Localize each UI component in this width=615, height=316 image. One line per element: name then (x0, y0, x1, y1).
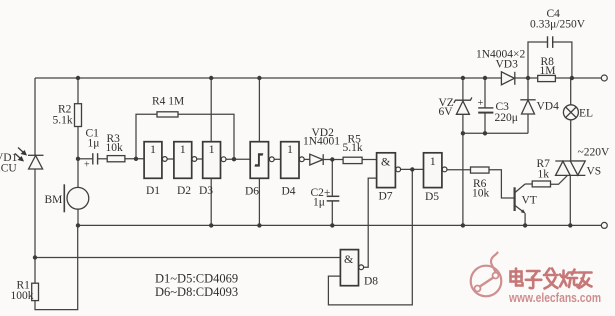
wire VD2 to R5 with node (323, 159, 343, 161)
wire R1 bottom loop (35, 225, 78, 309)
wire triac to bottom rail (569, 175, 571, 225)
wire VT emitter down (524, 213, 526, 225)
svg-text:1N4001: 1N4001 (303, 135, 340, 147)
svg-text:6V: 6V (439, 106, 454, 118)
wire C4 branch (528, 42, 547, 78)
svg-text:5.1k: 5.1k (343, 142, 363, 154)
svg-text:1: 1 (209, 142, 215, 156)
diode VD4 (520, 100, 535, 114)
wire D6 supply bottom (258, 178, 260, 225)
light arrows (15, 148, 26, 161)
microphone BM (64, 184, 89, 212)
nand gate D7 (377, 153, 401, 188)
svg-text:D8: D8 (364, 276, 378, 288)
resistor R3 (107, 156, 125, 162)
wire R4 feedback loop (136, 114, 157, 159)
nand gate D8 (340, 250, 363, 286)
svg-text:BM: BM (45, 194, 63, 206)
zener diode VZ (454, 97, 472, 114)
svg-text:10k: 10k (472, 188, 490, 200)
wire C1 to R3 (98, 158, 107, 160)
wire D3 out to D6 (226, 158, 250, 160)
resistor R2 (75, 104, 82, 127)
resistor R4 (157, 112, 178, 117)
wire EL branch (570, 78, 572, 105)
diode VD2 (310, 154, 323, 165)
svg-text:1M: 1M (540, 65, 556, 77)
lamp EL (563, 105, 578, 120)
svg-text:D3: D3 (199, 185, 213, 197)
svg-text:EL: EL (579, 108, 593, 120)
wire R2 to signal node (77, 127, 79, 159)
wire mid supply line (463, 132, 528, 134)
resistor R7 (532, 181, 550, 187)
svg-text:2CU: 2CU (0, 163, 17, 175)
wire D3 supply top (210, 78, 212, 142)
resistor R5 (343, 157, 362, 163)
svg-text:D1~D5:CD4069: D1~D5:CD4069 (155, 272, 238, 286)
capacitor C4 (548, 36, 553, 48)
svg-text:+: + (84, 160, 90, 171)
svg-text:D7: D7 (379, 191, 393, 203)
svg-text:1: 1 (287, 142, 293, 156)
svg-text:1k: 1k (538, 169, 550, 181)
wire D5 out to R6 (447, 169, 471, 171)
wire VT collector to R7 (525, 183, 532, 185)
svg-text:D2: D2 (177, 185, 191, 197)
wire VZ branch (462, 78, 464, 100)
wire left vertical VD1 branch (34, 78, 36, 155)
svg-text:1: 1 (430, 154, 436, 168)
photodiode VD1 (28, 155, 44, 169)
svg-text:R4 1M: R4 1M (152, 96, 184, 108)
wire D1 out to D2 (167, 158, 174, 160)
triac VS (555, 161, 585, 175)
wire R6 to VT base (489, 170, 514, 198)
wire R7 to triac gate (551, 176, 568, 185)
resistor R8 (538, 75, 556, 81)
diode VD3 (501, 72, 514, 85)
wire R3 to D1 input (125, 158, 144, 160)
svg-text:VD4: VD4 (537, 101, 560, 113)
schmitt gate D6 (250, 142, 274, 179)
resistor R1 (32, 283, 39, 300)
svg-text:&: & (381, 155, 391, 169)
svg-text:D5: D5 (425, 191, 439, 203)
wire D7 out to D5 with node (400, 168, 423, 170)
svg-text:1: 1 (180, 142, 186, 156)
inverter D3 (203, 142, 226, 179)
wire R5 to D7 input1 (362, 159, 377, 161)
svg-text:1: 1 (150, 142, 156, 156)
inverter D5 (424, 153, 448, 188)
capacitor C3 (478, 108, 493, 113)
wire C3 branch (484, 78, 486, 108)
transistor VT (515, 184, 526, 214)
wire bottom rail (78, 224, 602, 226)
wire D6 out to D4 (274, 158, 281, 160)
svg-text:1μ: 1μ (313, 197, 325, 209)
svg-text:0.33μ/250V: 0.33μ/250V (530, 19, 586, 31)
svg-text:D6~D8:CD4093: D6~D8:CD4093 (155, 285, 238, 299)
inverter D2 (174, 142, 197, 179)
wire D2 out to D3 (197, 158, 203, 160)
capacitor C2 (327, 196, 340, 201)
svg-text:www.elecfans.com: www.elecfans.com (508, 291, 601, 305)
terminal top right (601, 75, 607, 81)
svg-text:1μ: 1μ (88, 138, 100, 150)
wire D7 node down to D8 latch loop (328, 169, 412, 305)
svg-text:+: + (478, 98, 484, 109)
capacitor C1 (93, 153, 98, 164)
svg-text:D4: D4 (282, 186, 296, 198)
wire BM to signal node (77, 159, 79, 188)
svg-text:D1: D1 (146, 185, 160, 197)
svg-text:&: & (344, 252, 354, 266)
resistor R6 (471, 167, 490, 173)
inverter D1 (144, 142, 167, 179)
wire top rail (35, 77, 501, 79)
wire VD4 branch (527, 78, 529, 99)
wire BM bottom (77, 209, 79, 225)
svg-text:VD3: VD3 (496, 59, 519, 71)
svg-text:10k: 10k (106, 142, 124, 154)
svg-text:100k: 100k (11, 290, 34, 302)
wire top rail after VD3 to R8 (515, 77, 538, 79)
wire C2 branch (331, 160, 333, 196)
svg-text:5.1k: 5.1k (53, 115, 73, 127)
svg-text:VT: VT (522, 195, 537, 207)
wire R2 branch top (77, 78, 79, 104)
svg-text:D6: D6 (245, 186, 259, 198)
wire D8 output to D7 input2 (364, 178, 377, 267)
wire top rail R8 to terminal (555, 77, 601, 79)
svg-text:220μ: 220μ (495, 112, 518, 124)
wire D8 top input from left (35, 257, 340, 259)
svg-text:~220V: ~220V (578, 147, 610, 159)
wire signal node to C1 (78, 158, 92, 160)
terminal bottom right (601, 222, 607, 228)
wire D4 out to VD2 (304, 158, 310, 160)
wire D3 supply bottom (210, 178, 212, 225)
watermark logo (471, 253, 502, 297)
inverter D4 (281, 142, 304, 179)
watermark text dianzifashaoyou (511, 269, 592, 289)
wire D6 supply top (258, 78, 260, 142)
svg-text:VS: VS (587, 166, 602, 178)
